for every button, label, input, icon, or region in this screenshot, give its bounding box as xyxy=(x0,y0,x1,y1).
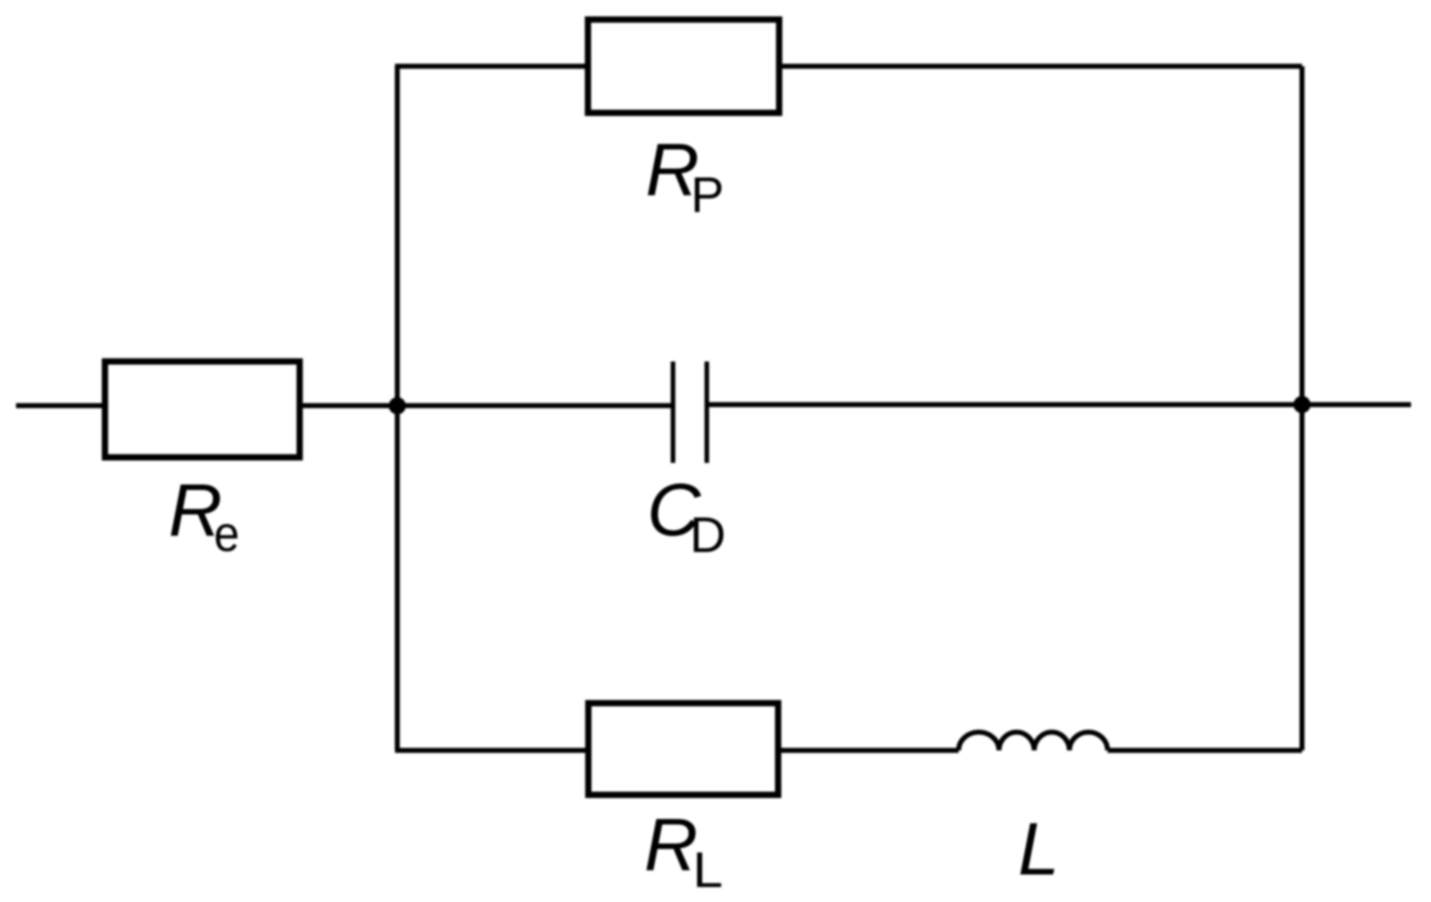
svg-text:L: L xyxy=(693,843,723,898)
svg-text:P: P xyxy=(691,167,724,223)
svg-text:e: e xyxy=(214,507,240,562)
svg-text:D: D xyxy=(690,507,726,563)
svg-text:R: R xyxy=(644,803,698,886)
svg-text:L: L xyxy=(1018,808,1059,891)
